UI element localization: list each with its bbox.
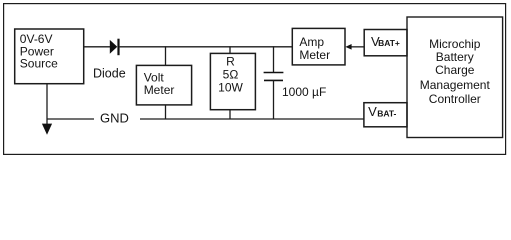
arrowhead into amp meter xyxy=(345,44,351,50)
svg-text:Controller: Controller xyxy=(429,92,481,106)
wire diode to amp meter xyxy=(120,46,293,48)
wire resistor bottom lead xyxy=(229,110,231,119)
diode D1 xyxy=(110,39,120,56)
svg-text:BAT-: BAT- xyxy=(377,109,396,119)
wire volt meter bottom lead xyxy=(165,105,167,119)
capacitor C1 xyxy=(264,73,284,81)
svg-text:Meter: Meter xyxy=(144,83,175,97)
svg-text:GND: GND xyxy=(100,111,129,126)
wire capacitor top lead xyxy=(273,46,275,72)
wire amp meter to VBAT+ xyxy=(351,46,365,48)
volt meter M1 xyxy=(136,65,191,105)
svg-text:1000 µF: 1000 µF xyxy=(282,85,326,99)
terminal VBAT- xyxy=(364,103,407,127)
wire GND right segment xyxy=(140,118,364,120)
power source PS1 xyxy=(15,29,84,84)
wire GND left segment xyxy=(47,118,94,120)
wire capacitor bottom lead xyxy=(273,80,275,119)
svg-text:V: V xyxy=(368,104,377,119)
wire power source to diode xyxy=(84,46,111,48)
wire volt meter top lead xyxy=(165,46,167,65)
resistor R 5ohm 10W xyxy=(210,53,255,109)
svg-text:Source: Source xyxy=(20,57,58,71)
wire resistor top lead xyxy=(229,46,231,53)
controller U1 xyxy=(407,17,503,138)
terminal VBAT+ xyxy=(364,30,407,56)
svg-text:Management: Management xyxy=(420,78,491,92)
svg-text:Meter: Meter xyxy=(299,48,330,62)
svg-text:BAT+: BAT+ xyxy=(378,38,400,48)
svg-text:10W: 10W xyxy=(218,80,243,94)
svg-text:Diode: Diode xyxy=(93,67,126,81)
svg-text:5Ω: 5Ω xyxy=(223,67,239,81)
wire power source to ground xyxy=(46,84,48,125)
svg-text:Charge: Charge xyxy=(435,63,475,77)
ground arrow xyxy=(42,124,52,135)
amp meter M2 xyxy=(292,28,345,65)
